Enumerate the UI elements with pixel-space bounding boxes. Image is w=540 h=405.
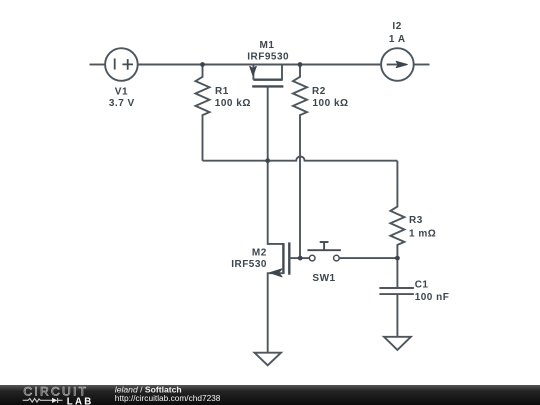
svg-text:M1: M1 xyxy=(260,40,275,51)
svg-text:IRF530: IRF530 xyxy=(231,259,267,270)
svg-text:100 kΩ: 100 kΩ xyxy=(215,98,251,109)
svg-text:M2: M2 xyxy=(252,248,267,259)
svg-text:SW1: SW1 xyxy=(312,273,335,284)
svg-text:LAB: LAB xyxy=(67,396,94,405)
svg-text:1 mΩ: 1 mΩ xyxy=(409,228,436,239)
svg-text:I2: I2 xyxy=(392,21,401,32)
svg-text:IRF9530: IRF9530 xyxy=(247,51,289,62)
svg-text:100 kΩ: 100 kΩ xyxy=(313,98,349,109)
svg-text:1 A: 1 A xyxy=(389,34,406,45)
svg-text:V1: V1 xyxy=(115,86,128,97)
svg-text:R2: R2 xyxy=(312,86,326,97)
svg-text:R3: R3 xyxy=(409,215,423,226)
svg-text:C1: C1 xyxy=(415,280,429,291)
svg-text:100 nF: 100 nF xyxy=(415,292,450,303)
svg-text:http://circuitlab.com/chd7238: http://circuitlab.com/chd7238 xyxy=(115,393,221,403)
svg-text:3.7 V: 3.7 V xyxy=(109,98,135,109)
svg-text:R1: R1 xyxy=(215,86,229,97)
